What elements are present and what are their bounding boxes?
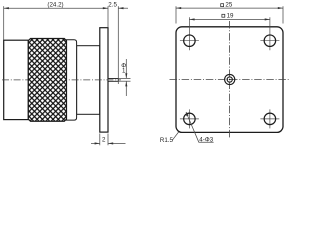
svg-text:4-Φ3: 4-Φ3 bbox=[199, 137, 213, 144]
svg-text:19: 19 bbox=[227, 12, 234, 19]
svg-text:2.5: 2.5 bbox=[108, 1, 117, 8]
svg-text:(24.2): (24.2) bbox=[47, 1, 63, 8]
svg-text:R1.5: R1.5 bbox=[160, 137, 174, 144]
svg-text:1: 1 bbox=[122, 68, 126, 75]
svg-text:2: 2 bbox=[102, 137, 106, 144]
svg-text:25: 25 bbox=[225, 2, 232, 9]
